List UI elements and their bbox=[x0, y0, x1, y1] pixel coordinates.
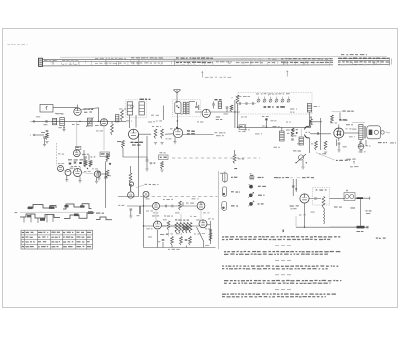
wire T2 to V4 bbox=[195, 111, 202, 113]
tube V5c am conv bbox=[74, 169, 82, 177]
value label 8 bbox=[224, 113, 229, 116]
cap C30 ps bbox=[309, 197, 321, 200]
notes numeral mark bbox=[283, 230, 284, 233]
wires audio verticals bbox=[320, 118, 366, 150]
rectifier tube V14 bbox=[290, 194, 310, 209]
ps bottom wire bbox=[296, 203, 368, 227]
value label 5 bbox=[148, 121, 155, 122]
value label 14 bbox=[319, 153, 326, 154]
top strip pointer mark 1 bbox=[201, 71, 203, 78]
value label 45 bbox=[148, 236, 152, 239]
value label 23 bbox=[36, 115, 40, 118]
top strip end bars bbox=[389, 58, 391, 66]
tube V9a small bbox=[129, 182, 133, 186]
legend icon hatch bbox=[249, 174, 255, 179]
top strip pointer mark 2 bbox=[286, 71, 288, 77]
tube V3 IF amp bbox=[173, 127, 195, 144]
tuner input box bbox=[40, 105, 53, 113]
components between T1 T2 bbox=[151, 106, 164, 121]
note divider 1 bbox=[275, 245, 291, 247]
fm det label left bbox=[290, 109, 297, 113]
tube V5a am rf bbox=[58, 166, 64, 172]
value label 20 bbox=[299, 214, 306, 215]
oscillator pointer arc bbox=[268, 93, 275, 96]
note paragraph 2 bbox=[224, 251, 340, 255]
tube V8 output bbox=[334, 119, 353, 141]
am row link wires bbox=[64, 167, 95, 175]
tube V5d am det bbox=[94, 171, 105, 177]
volume box mid bbox=[100, 152, 110, 157]
switch wafer diagram row1 right bbox=[63, 204, 92, 209]
tube V13 bbox=[199, 220, 207, 228]
legend icon label 4 bbox=[258, 203, 264, 204]
ps out wire right bbox=[330, 198, 346, 200]
block right border bbox=[218, 171, 220, 249]
dashed link line mid bbox=[172, 157, 260, 159]
b plus 45 label bbox=[366, 210, 372, 214]
switch wafer diagram row2 right bbox=[64, 213, 94, 219]
switch row2 right pads bbox=[74, 211, 93, 216]
value label 1 bbox=[56, 112, 64, 115]
switch wafer diagram row2 left bbox=[20, 214, 60, 218]
page ref text bbox=[376, 238, 386, 239]
value label 15 bbox=[360, 144, 364, 147]
value label left-am bbox=[150, 163, 155, 164]
lower cluster cap C2 + ground bbox=[41, 130, 49, 143]
legend lamp symbol 3 bbox=[222, 202, 227, 211]
parts table frame bbox=[21, 230, 93, 249]
label smudges tuner bbox=[55, 113, 102, 126]
block components upper bbox=[129, 166, 132, 191]
legend label 3 bbox=[231, 205, 238, 206]
value label 36 bbox=[153, 211, 158, 214]
phono pickup cluster bbox=[91, 155, 112, 165]
wire V7 to V8 bbox=[310, 133, 331, 135]
45v label bbox=[351, 207, 356, 208]
note paragraph 5 bbox=[222, 293, 336, 297]
legend icon blob 4 bbox=[248, 201, 254, 206]
am link box bbox=[159, 152, 169, 172]
legend icon label 2 bbox=[258, 186, 266, 187]
speaker SP1 bbox=[367, 126, 390, 139]
b plus 110 label bbox=[341, 120, 366, 123]
value label 3 bbox=[96, 129, 103, 132]
junction dots bbox=[79, 111, 361, 228]
block left rail bbox=[143, 197, 145, 248]
legend top tick bbox=[234, 168, 237, 169]
value label 28 bbox=[170, 127, 175, 130]
grid cap with blob bbox=[265, 118, 267, 120]
volume control switch bbox=[293, 150, 307, 169]
ground stub G1 bbox=[62, 126, 65, 132]
legend top-left mark bbox=[220, 172, 223, 175]
left audio components bbox=[291, 128, 294, 140]
wire antenna into T2 bbox=[176, 102, 179, 128]
note divider 3 bbox=[275, 274, 291, 276]
components between V5 V3 bbox=[152, 126, 164, 145]
tube V2 mixer bbox=[100, 119, 107, 126]
top alignment strip rails bbox=[39, 56, 389, 66]
tuner rail bbox=[32, 120, 127, 122]
coil L2 bbox=[59, 118, 66, 129]
resistor R13 bias bbox=[331, 115, 334, 123]
block bottom drops bbox=[158, 230, 204, 248]
am text smudges bbox=[58, 163, 98, 172]
speaker plug pointer bbox=[316, 151, 366, 167]
labels right of V3 wire bbox=[215, 132, 226, 136]
long dashed line F bbox=[140, 196, 218, 198]
ac feed wires bbox=[293, 179, 296, 196]
value label 13 bbox=[346, 127, 352, 130]
value label 32 bbox=[297, 142, 301, 145]
legend icon label 3 bbox=[258, 195, 265, 196]
coil L4 vertical bbox=[116, 115, 119, 122]
boxed resistor R15 bbox=[280, 127, 285, 141]
cap C3 lower bbox=[43, 137, 46, 147]
resistor R20 mid bbox=[233, 150, 244, 164]
am small comp on wire bbox=[104, 175, 111, 178]
top strip component smudges bbox=[44, 57, 389, 65]
value label 40 bbox=[196, 219, 200, 222]
wire V4 right bbox=[210, 111, 240, 113]
legend icon blob 2 bbox=[249, 184, 253, 189]
value label mid-47k bbox=[273, 147, 280, 148]
tube V11 bbox=[197, 202, 205, 210]
tube V10 bbox=[153, 203, 160, 210]
mid rail to audio bbox=[238, 126, 312, 128]
cap C10 on mid rail bbox=[262, 116, 269, 127]
caps left of bank bbox=[237, 96, 257, 105]
ps to notes tick bbox=[295, 216, 297, 227]
plus45 label bbox=[334, 206, 342, 207]
value label 10 bbox=[255, 132, 262, 135]
right column F bbox=[209, 221, 212, 244]
terminal T2 lower bbox=[30, 134, 45, 137]
top strip caption right bbox=[341, 54, 367, 55]
wire box to V1 bbox=[53, 107, 77, 109]
value label 30 bbox=[262, 125, 267, 128]
c-bias label bbox=[332, 111, 354, 121]
antenna bbox=[174, 89, 181, 103]
cascode tube V1b bbox=[73, 121, 89, 158]
detector load caps bbox=[226, 105, 233, 112]
coupling cap C20 bbox=[317, 132, 318, 135]
am top box bbox=[76, 146, 81, 149]
tube V9 phono amp bbox=[128, 186, 134, 198]
faint title text bbox=[205, 77, 231, 78]
top strip gap patch bbox=[333, 57, 338, 67]
value label 11 bbox=[271, 119, 277, 122]
tube V9b right bbox=[143, 191, 149, 197]
value label 39 bbox=[163, 218, 167, 221]
value label 33 bbox=[311, 142, 317, 145]
am shield dashed line bbox=[55, 143, 57, 166]
oscillator dashed enclosure bbox=[238, 93, 312, 115]
tube V5 AM conv bbox=[129, 129, 144, 145]
legend icon blob 3 bbox=[248, 192, 254, 198]
ac line text bbox=[274, 177, 314, 178]
switch row2 left pads bbox=[27, 215, 45, 221]
volume pot cluster bbox=[310, 117, 313, 127]
value label 25 bbox=[58, 152, 64, 155]
input terminal T1 bbox=[30, 121, 35, 124]
value label 43 bbox=[194, 233, 199, 236]
resistor bank dense bbox=[175, 219, 192, 233]
audio bias resistors bbox=[315, 141, 347, 154]
tube V4 detector bbox=[202, 109, 222, 120]
b plus text right bbox=[378, 142, 396, 143]
note divider 4 bbox=[275, 288, 291, 290]
wire V1 right down bbox=[78, 105, 99, 122]
value label 41 bbox=[157, 240, 160, 243]
line plug marks bbox=[292, 186, 297, 190]
note paragraph 4 bbox=[224, 280, 341, 284]
value label 42 bbox=[176, 233, 182, 234]
b plus vertical bbox=[360, 199, 362, 226]
to pin label pointer bbox=[136, 184, 159, 188]
electrolytic cap block bbox=[344, 190, 355, 201]
legend label 1 bbox=[231, 177, 237, 178]
block top cap cluster bbox=[97, 170, 109, 180]
am row dots bbox=[69, 162, 88, 169]
tube V1 6BK7 bbox=[74, 108, 93, 115]
legend far tick bbox=[276, 177, 278, 178]
IF transformer T2 shield box bbox=[173, 100, 201, 117]
detector coil pair above V4 bbox=[212, 99, 221, 108]
legend label 2 bbox=[231, 191, 240, 192]
resistor R2 below rail bbox=[111, 121, 114, 135]
detector right vertical bbox=[234, 100, 236, 128]
b plus wire bbox=[355, 197, 370, 200]
ac text bbox=[346, 159, 355, 160]
boxed resistor R12 plate bbox=[307, 104, 319, 127]
switch row1 left pads bbox=[28, 206, 55, 209]
legend icon label 1 bbox=[258, 177, 264, 178]
tube V5b am osc bbox=[65, 170, 71, 176]
block rail upper bbox=[118, 196, 139, 198]
value label 12 bbox=[330, 122, 337, 123]
filter choke L10 bbox=[324, 208, 325, 224]
table cell text bbox=[22, 232, 91, 248]
am wires vertical bbox=[84, 150, 108, 208]
tube V7 audio amp bbox=[292, 122, 322, 153]
switch row1 right pads bbox=[65, 205, 85, 208]
value label 9 bbox=[244, 128, 250, 131]
wire V2 down to am bbox=[103, 126, 105, 150]
top strip terminal box bbox=[39, 58, 43, 66]
value label 31 bbox=[286, 121, 291, 124]
switch row0 faint line bbox=[20, 211, 95, 213]
value label 26 bbox=[126, 120, 132, 121]
am grounds bbox=[65, 176, 98, 184]
legend lamp symbol 1 bbox=[223, 172, 228, 184]
resistor R1 vertical bbox=[121, 110, 124, 121]
block row wires bbox=[127, 206, 211, 226]
value label 16 bbox=[146, 197, 150, 200]
b plus junction bar bbox=[357, 197, 364, 199]
row1 components bbox=[160, 199, 198, 210]
value label 37 bbox=[175, 211, 180, 214]
IF transformer T1 bbox=[126, 99, 151, 118]
cap C15 mid bbox=[145, 157, 155, 171]
value label 7 bbox=[197, 120, 203, 123]
value label 6 bbox=[166, 137, 172, 140]
value label 24 bbox=[43, 111, 47, 114]
switch wafer diagram row1 left bbox=[27, 205, 56, 209]
dashed rail to end bbox=[330, 226, 356, 228]
value label 27 bbox=[156, 119, 162, 122]
audio labels cluster bbox=[273, 126, 296, 134]
legend lamp symbol 2 bbox=[222, 187, 226, 196]
tube V12 bbox=[154, 221, 162, 229]
block inner verticals bbox=[156, 210, 201, 237]
resistor R30 ps bbox=[322, 197, 325, 209]
am detector components bbox=[117, 135, 147, 197]
value label 2 bbox=[86, 125, 93, 128]
row1 left hang cap bbox=[118, 205, 140, 218]
value label 44 bbox=[205, 227, 210, 230]
wires IF lower bbox=[139, 133, 214, 136]
value label 19 bbox=[208, 217, 214, 220]
switch small mid marks bbox=[96, 213, 112, 220]
note divider 2 bbox=[275, 259, 291, 261]
tuned coil L3 bbox=[86, 117, 93, 127]
faint corner text top-left bbox=[8, 44, 28, 45]
trimmer capacitors row bbox=[256, 93, 290, 102]
row2 components bbox=[152, 215, 176, 230]
value label 4 bbox=[119, 108, 126, 111]
mid rail inductor box bbox=[239, 125, 246, 132]
capacitor C1 bbox=[44, 120, 48, 125]
value label 17 bbox=[192, 197, 199, 200]
bottom rail end cluster bbox=[357, 226, 369, 232]
value label 21 bbox=[311, 211, 315, 214]
selenium dashed box bbox=[313, 188, 330, 206]
switch left label bbox=[15, 212, 18, 213]
note paragraph 1 bbox=[222, 236, 340, 240]
boxed resistor R16 bbox=[299, 129, 303, 145]
value label 34 bbox=[349, 135, 355, 138]
left column components osc bbox=[232, 95, 239, 127]
block bottom label bbox=[168, 249, 180, 250]
value label 29 bbox=[241, 116, 247, 119]
note paragraph 3 bbox=[222, 265, 338, 269]
value label 18 bbox=[147, 227, 153, 230]
top strip pin ticks bbox=[51, 60, 380, 66]
switch row2 ticks bbox=[24, 214, 53, 223]
electrolytic cap C47 bbox=[358, 140, 370, 153]
coil L1 bbox=[53, 118, 57, 125]
row3 components bbox=[160, 234, 191, 245]
wires T1 down bbox=[130, 115, 136, 128]
block bottom rail bbox=[144, 247, 216, 249]
note leftover mark left bbox=[210, 231, 212, 235]
am component row bbox=[68, 159, 92, 167]
diagonal wire F bbox=[197, 227, 204, 241]
block mid extra smudges bbox=[146, 210, 209, 245]
output transformer T3 bbox=[344, 125, 366, 140]
osc adj labels bbox=[264, 106, 285, 108]
